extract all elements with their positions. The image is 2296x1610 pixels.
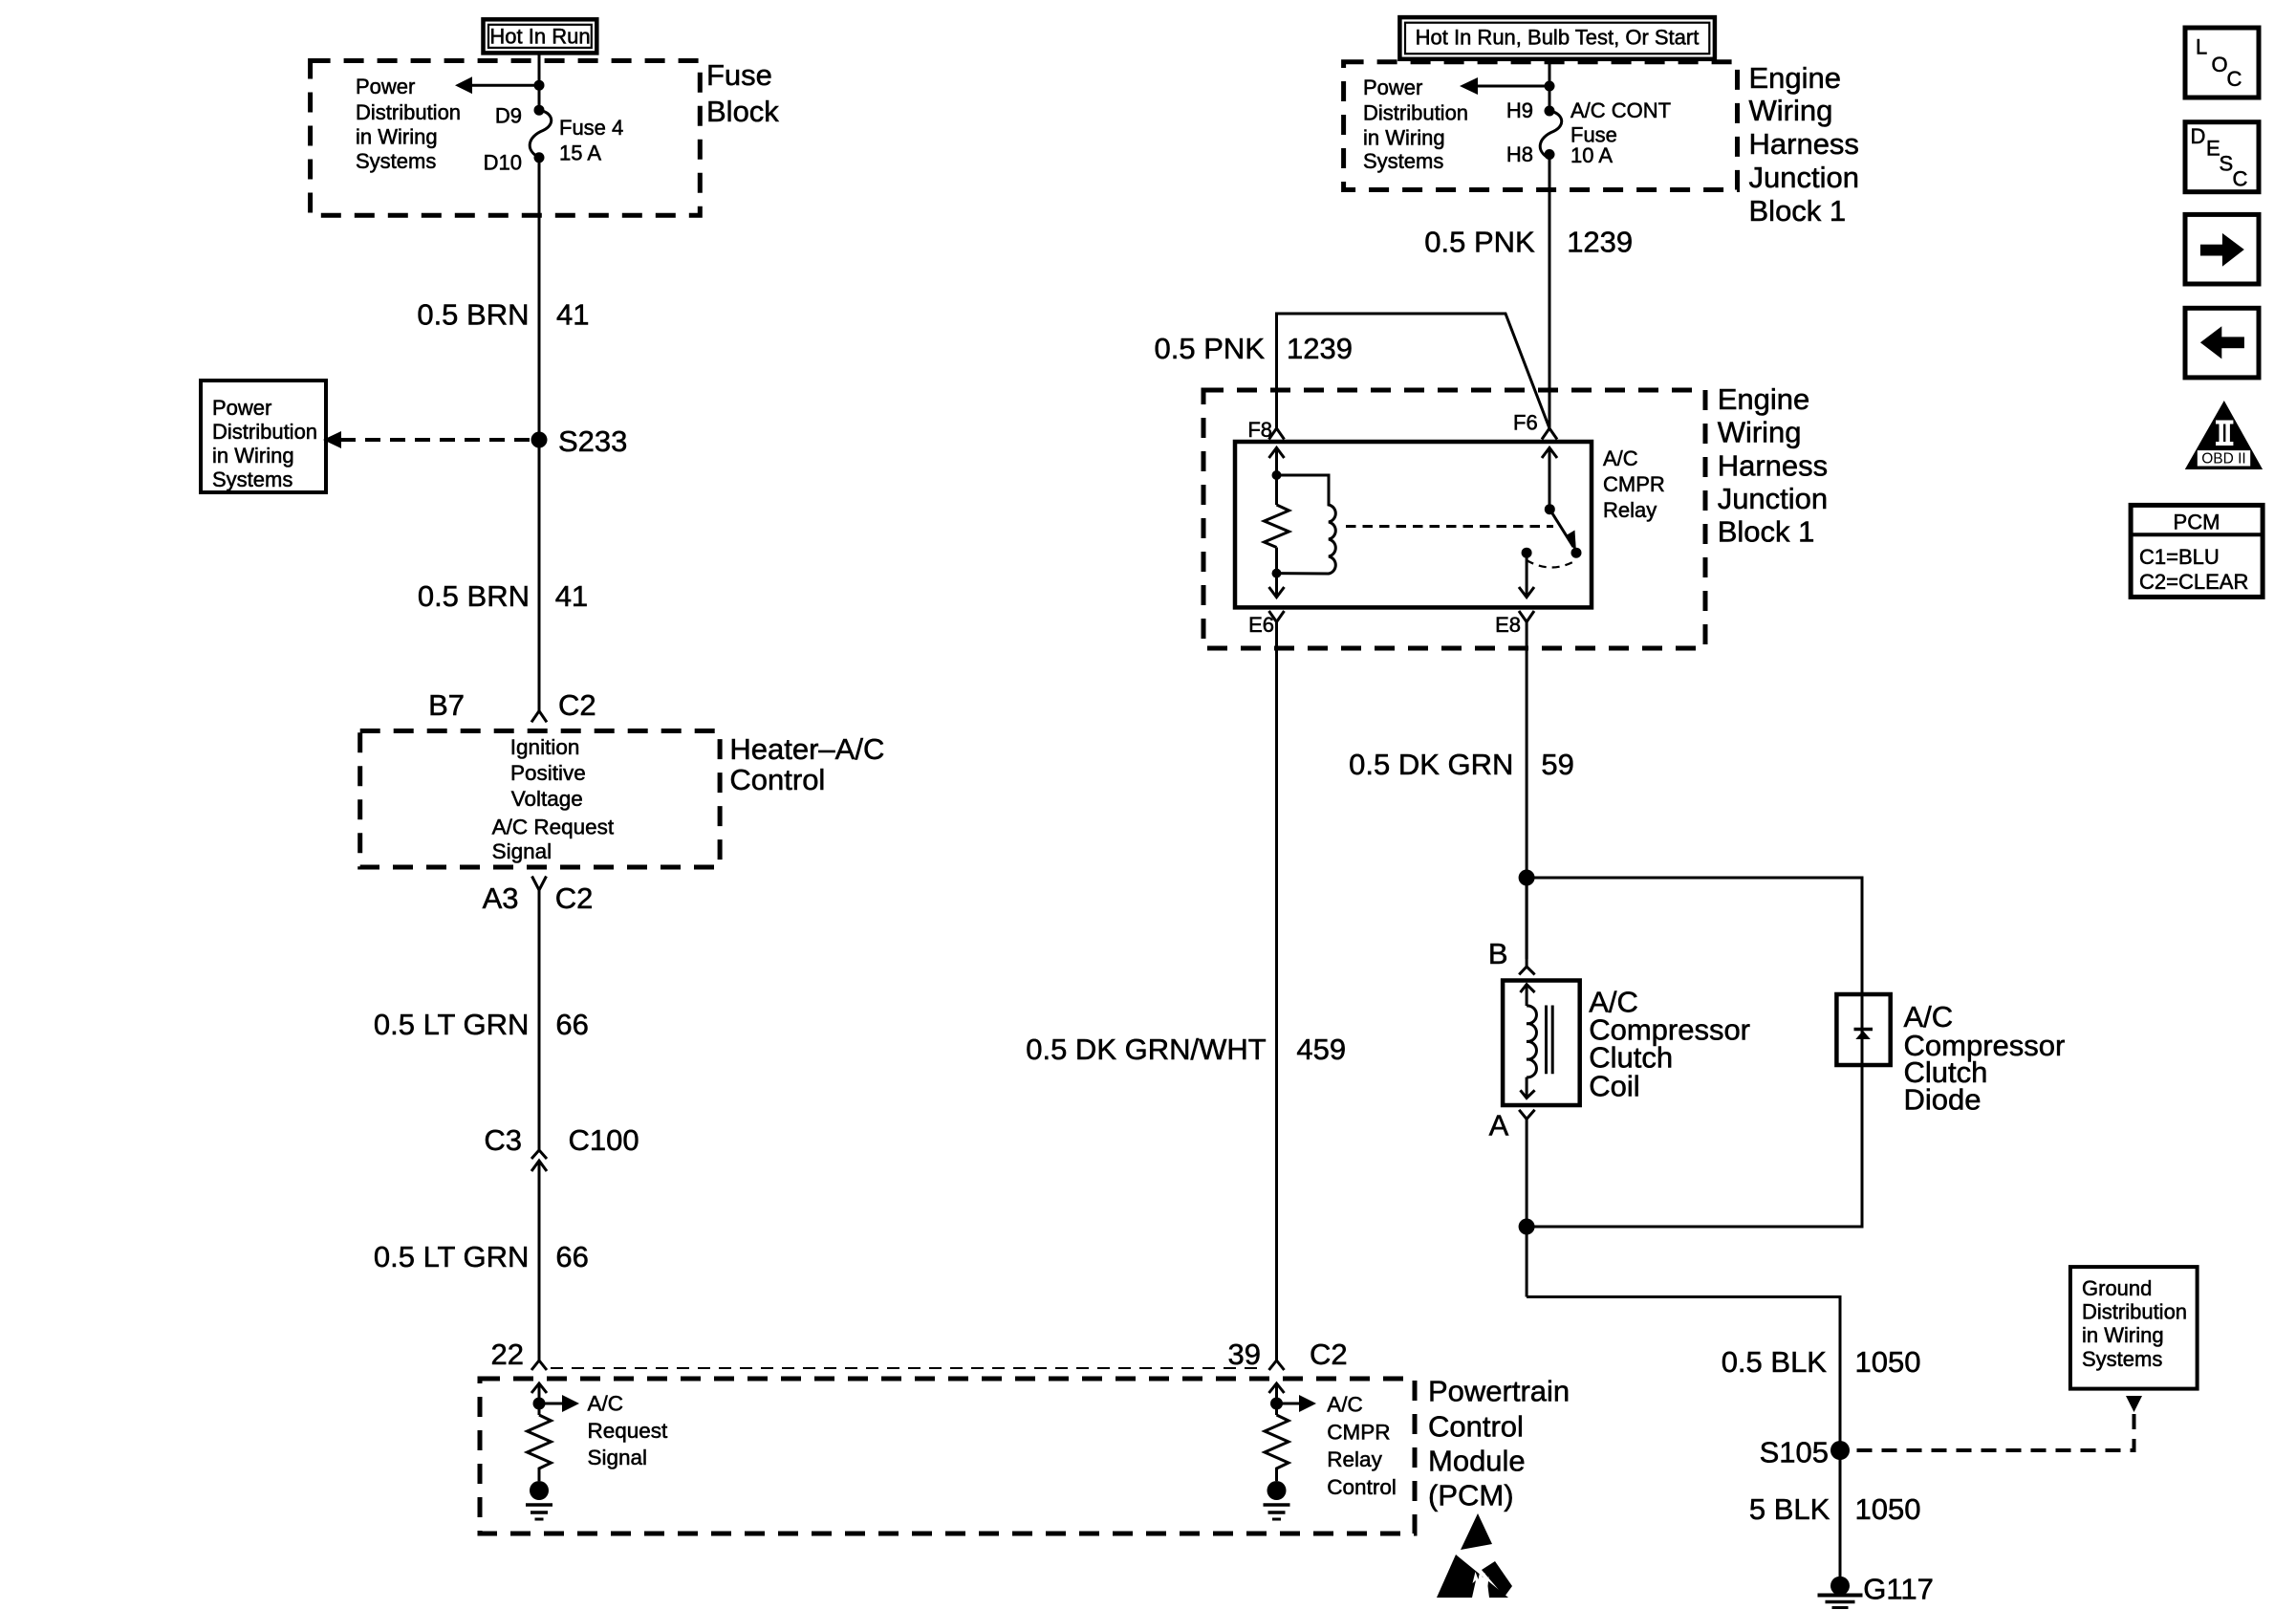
svg-text:Fuse 4: Fuse 4 [559, 116, 623, 140]
terminal H9 [1545, 106, 1555, 117]
svg-text:Distribution: Distribution [2082, 1300, 2187, 1324]
text "Power Distribution in Wiring Systems" (fuse block) [356, 75, 461, 173]
svg-text:1239: 1239 [1567, 225, 1633, 258]
svg-text:C2: C2 [1310, 1338, 1348, 1371]
svg-text:Block 1: Block 1 [1749, 194, 1847, 228]
svg-text:E8: E8 [1495, 613, 1521, 637]
svg-text:Diode: Diode [1904, 1082, 1982, 1116]
resistor (pin 39 driver) [1265, 1415, 1289, 1481]
svg-text:Block: Block [706, 95, 779, 128]
wire D10 to B7 connector (through S233) [538, 158, 541, 711]
text "A/C Request Signal" (heater box) [492, 816, 615, 863]
wire B to coil box [1526, 878, 1528, 967]
svg-text:0.5 DK GRN/WHT: 0.5 DK GRN/WHT [1026, 1033, 1267, 1066]
pin label 39 | C2 [1228, 1338, 1348, 1371]
ground symbol G117 [1818, 1596, 1863, 1608]
power label box "Hot In Run, Bulb Test, Or Start" [1399, 17, 1715, 59]
svg-text:A/C CONT: A/C CONT [1570, 98, 1671, 122]
svg-text:A: A [1489, 1108, 1509, 1142]
svg-text:A/C Request: A/C Request [492, 816, 615, 839]
wire branch to diode (top) [1527, 878, 1862, 994]
svg-text:H9: H9 [1506, 98, 1533, 122]
relay coil pin 86 arrow [1269, 447, 1285, 505]
wire A down to junction [1526, 1119, 1528, 1296]
svg-text:S105: S105 [1760, 1435, 1829, 1469]
svg-text:0.5 LT GRN: 0.5 LT GRN [374, 1240, 530, 1273]
svg-text:Systems: Systems [356, 149, 436, 173]
svg-text:E6: E6 [1248, 613, 1274, 637]
relay resistor [1265, 505, 1289, 548]
svg-text:Junction: Junction [1749, 161, 1859, 194]
relay switch blade [1549, 510, 1576, 553]
svg-text:459: 459 [1296, 1033, 1346, 1066]
in-line connector C100 (male half) [531, 1161, 547, 1171]
text "Ignition Positive Voltage" [510, 735, 586, 811]
svg-text:Request: Request [588, 1419, 669, 1443]
relay actuation dashed link [1346, 525, 1553, 528]
text "Power Distribution in Wiring Systems" (junction block) [1363, 76, 1468, 173]
svg-text:5 BLK: 5 BLK [1749, 1492, 1830, 1526]
svg-text:A/C: A/C [588, 1391, 624, 1415]
wire S105 to ground G117 [1839, 1450, 1842, 1579]
svg-text:C: C [2227, 67, 2242, 91]
svg-text:41: 41 [555, 579, 588, 613]
relay coil winding [1277, 475, 1336, 574]
svg-text:C100: C100 [569, 1123, 639, 1157]
engine wiring harness junction block 1 dashed box (relay) [1203, 390, 1705, 648]
reference box "Ground Distribution in Wiring Systems" [2070, 1267, 2198, 1389]
svg-text:Block 1: Block 1 [1718, 515, 1815, 549]
legend icon back arrow box [2185, 308, 2259, 378]
svg-text:C2: C2 [555, 881, 594, 915]
svg-text:Voltage: Voltage [511, 787, 583, 811]
wire from Hot In Run box to fuse D9 [538, 53, 541, 110]
ground dot pin 39 [1267, 1481, 1287, 1500]
svg-text:Harness: Harness [1718, 448, 1828, 482]
pin label A3 | C2 [483, 881, 594, 915]
svg-text:1050: 1050 [1855, 1345, 1921, 1379]
svg-text:in Wiring: in Wiring [212, 444, 294, 468]
PCM pin 22 input: male pin arrow [531, 1383, 547, 1415]
svg-text:Ignition: Ignition [510, 735, 580, 759]
signal arrow A/C CMPR Relay Control [1277, 1395, 1317, 1412]
svg-text:Power: Power [1363, 76, 1422, 99]
svg-text:Junction: Junction [1718, 482, 1828, 515]
svg-text:0.5 BRN: 0.5 BRN [417, 298, 529, 332]
A/C CMPR relay box [1235, 442, 1592, 607]
splice S105 [1830, 1441, 1850, 1460]
svg-text:Distribution: Distribution [1363, 101, 1468, 125]
label "Engine Wiring Harness Junction Block 1" (relay) [1718, 382, 1828, 549]
svg-text:Heater–A/C: Heater–A/C [729, 732, 884, 766]
svg-text:A3: A3 [483, 881, 519, 915]
svg-text:(PCM): (PCM) [1428, 1479, 1514, 1512]
dashed ground distribution reference arrow [1855, 1396, 2142, 1450]
connector symbol E8 [1519, 611, 1534, 622]
ESD sensitivity symbol [1437, 1513, 1512, 1598]
wire arrow tap to power distribution (junction block) [1460, 77, 1549, 95]
wire E6 down to PCM pin 39 [1275, 622, 1278, 1361]
A/C compressor clutch diode box [1836, 994, 1890, 1065]
svg-text:Power: Power [356, 75, 415, 98]
value label "Fuse 4 15 A" [559, 116, 623, 165]
relay coil top junction dot [1272, 470, 1282, 480]
svg-text:Control: Control [729, 763, 825, 796]
svg-text:Systems: Systems [212, 468, 292, 491]
label "A/C CMPR Relay" [1603, 446, 1665, 522]
svg-text:C: C [2233, 167, 2248, 191]
svg-text:41: 41 [556, 298, 589, 332]
svg-text:A/C: A/C [1327, 1393, 1363, 1417]
svg-text:S233: S233 [558, 424, 627, 458]
relay switch pin 30 arrow [1542, 447, 1557, 509]
svg-text:D10: D10 [484, 150, 522, 174]
svg-text:59: 59 [1541, 748, 1573, 781]
svg-text:O: O [2212, 53, 2228, 76]
svg-text:0.5 PNK: 0.5 PNK [1155, 332, 1266, 365]
svg-text:1239: 1239 [1287, 332, 1353, 365]
svg-text:Control: Control [1428, 1410, 1524, 1444]
svg-text:D: D [2191, 124, 2206, 148]
label "A/C Compressor Clutch Diode" [1904, 1000, 2066, 1116]
relay switch common contact dot [1522, 548, 1532, 558]
junction dot at arrow tap [1545, 81, 1555, 92]
svg-text:C2: C2 [558, 688, 596, 722]
powertrain control module dashed box [480, 1379, 1415, 1534]
legend PCM connector table [2131, 505, 2263, 597]
ground G117 dot [1830, 1577, 1850, 1596]
clutch coil winding [1527, 1006, 1536, 1077]
svg-text:Hot In Run: Hot In Run [489, 25, 590, 49]
pin label C3 | C100 [484, 1123, 639, 1157]
svg-text:C2=CLEAR: C2=CLEAR [2139, 570, 2248, 594]
label "A/C Compressor Clutch Coil" [1589, 986, 1750, 1103]
svg-text:B: B [1488, 937, 1508, 970]
resistor (pin 22 pull-down) [528, 1415, 552, 1481]
connector symbol F6 [1542, 428, 1557, 440]
wire H8 down to relay F6 [1549, 155, 1551, 429]
svg-text:S: S [2220, 152, 2234, 176]
connector symbol at heater-A/C control A3 [532, 877, 547, 891]
wire from Hot box to fuse H9 [1549, 59, 1551, 111]
ground symbol pin 39 [1264, 1505, 1290, 1519]
ground dot pin 22 [530, 1481, 549, 1500]
wire label "0.5 DK GRN/WHT 459" [1026, 1033, 1346, 1066]
branch wire 1239 from F6 to F8 [1277, 314, 1550, 428]
svg-text:39: 39 [1228, 1338, 1261, 1371]
label "Engine Wiring Harness Junction Block 1" (upper) [1749, 61, 1859, 228]
svg-text:CMPR: CMPR [1603, 472, 1665, 496]
clutch coil internal wire with pin arrows [1521, 985, 1535, 1099]
svg-text:0.5 BRN: 0.5 BRN [418, 579, 530, 613]
clutch coil core bars [1547, 1006, 1553, 1075]
svg-text:Fuse: Fuse [706, 58, 772, 92]
wire E8 down to junction B [1526, 622, 1528, 960]
junction dot below clutch coil [1519, 1219, 1535, 1235]
svg-text:Module: Module [1428, 1445, 1526, 1478]
relay switch pin 87 arrow [1519, 553, 1534, 597]
svg-text:Relay: Relay [1603, 498, 1657, 522]
power label box "Hot In Run" [484, 19, 597, 53]
svg-text:F6: F6 [1513, 411, 1538, 435]
text "A/C Request Signal" (PCM) [588, 1391, 669, 1469]
svg-text:22: 22 [491, 1338, 524, 1371]
wire to splice S105 [1527, 1297, 1840, 1451]
svg-text:in Wiring: in Wiring [2082, 1323, 2164, 1347]
fuse block dashed box [311, 61, 701, 216]
relay switch pivot dot [1545, 504, 1555, 514]
svg-text:0.5 BLK: 0.5 BLK [1722, 1345, 1828, 1379]
svg-text:Coil: Coil [1589, 1069, 1639, 1102]
diode element [1854, 994, 1874, 1065]
legend icon OBD II triangle [2185, 401, 2263, 469]
svg-text:L: L [2196, 34, 2207, 58]
svg-text:CMPR: CMPR [1327, 1420, 1390, 1444]
svg-text:in Wiring: in Wiring [356, 125, 438, 149]
relay switch travel dashed arc [1527, 560, 1576, 568]
svg-text:C3: C3 [484, 1123, 522, 1157]
wire label "0.5 LT GRN 66" (upper) [374, 1008, 589, 1041]
svg-text:PCM: PCM [2174, 511, 2220, 534]
junction dot above clutch coil [1519, 870, 1535, 886]
svg-text:B7: B7 [428, 688, 465, 722]
svg-text:Distribution: Distribution [212, 420, 317, 444]
svg-text:0.5 PNK: 0.5 PNK [1424, 225, 1535, 258]
wire label "0.5 DK GRN 59" [1349, 748, 1574, 781]
wire label "0.5 PNK 1239" (branch) [1155, 332, 1353, 365]
dashed arrow from S233 to power distribution box [323, 431, 531, 448]
junction dot at arrow tap [534, 80, 545, 91]
PCM pin 39 input: male pin arrow [1269, 1383, 1285, 1415]
svg-text:Systems: Systems [1363, 149, 1443, 173]
wire label "0.5 BRN 41" (lower) [418, 579, 588, 613]
svg-text:66: 66 [555, 1008, 588, 1041]
relay coil bottom junction dot [1272, 569, 1282, 578]
wire label "0.5 PNK 1239" (upper) [1424, 225, 1633, 258]
svg-text:in Wiring: in Wiring [1363, 126, 1445, 150]
svg-text:15 A: 15 A [559, 141, 601, 165]
connector C2 indicator dashed line [551, 1367, 1266, 1369]
svg-text:Power: Power [212, 396, 271, 420]
reference box "Power Distribution in Wiring Systems" [201, 381, 326, 492]
junction dot pin 39 [1270, 1398, 1283, 1410]
connector symbol at clutch coil A [1519, 1110, 1534, 1120]
connector symbol at heater-A/C control B7 [531, 711, 547, 723]
svg-text:Positive: Positive [510, 761, 586, 785]
svg-text:Wiring: Wiring [1749, 94, 1833, 127]
engine wiring harness junction block 1 dashed box (upper) [1344, 62, 1738, 190]
fuse F4 element (S-curve) [530, 110, 551, 158]
wire branch to diode (bottom) [1527, 1065, 1862, 1227]
label "Heater-A/C Control" [729, 732, 884, 796]
wire C100 to PCM pin 22 [538, 1162, 541, 1360]
connector symbol at PCM pin 39 [1269, 1360, 1285, 1370]
svg-text:Signal: Signal [588, 1446, 648, 1469]
legend icon forward arrow box [2185, 214, 2259, 284]
svg-text:Hot In Run, Bulb Test, Or Star: Hot In Run, Bulb Test, Or Start [1416, 25, 1700, 49]
svg-text:66: 66 [555, 1240, 588, 1273]
connector symbol at PCM pin 22 [531, 1360, 547, 1370]
wire label "0.5 LT GRN 66" (lower) [374, 1240, 589, 1273]
svg-text:Wiring: Wiring [1718, 416, 1802, 449]
svg-text:H8: H8 [1506, 142, 1533, 166]
svg-text:OBD II: OBD II [2201, 451, 2246, 468]
fuse A/C CONT element (S-curve) [1540, 111, 1561, 159]
ground symbol pin 22 [526, 1505, 552, 1519]
svg-text:Harness: Harness [1749, 127, 1859, 161]
wire A3 to C100 connector [538, 890, 541, 1150]
terminal D9 [534, 105, 545, 116]
relay switch blade end dot [1571, 548, 1582, 558]
svg-text:C1=BLU: C1=BLU [2139, 545, 2220, 569]
junction dot pin 22 [533, 1398, 546, 1410]
connector symbol at clutch coil B [1519, 967, 1534, 974]
svg-text:Ground: Ground [2082, 1276, 2152, 1300]
text "A/C CMPR Relay Control" (PCM) [1327, 1393, 1397, 1499]
svg-text:10 A: 10 A [1570, 143, 1613, 167]
svg-text:1050: 1050 [1855, 1492, 1921, 1526]
wire label "0.5 BLK 1050" [1722, 1345, 1921, 1379]
legend icon LOC box [2185, 28, 2259, 98]
terminal H8 [1545, 149, 1555, 160]
svg-text:A/C: A/C [1603, 446, 1638, 470]
svg-text:G117: G117 [1863, 1573, 1934, 1606]
in-line connector C100 (female half) [531, 1150, 547, 1159]
svg-text:Control: Control [1327, 1475, 1397, 1499]
svg-text:Relay: Relay [1327, 1447, 1382, 1471]
svg-text:Systems: Systems [2082, 1347, 2162, 1371]
connector symbol E6 [1269, 611, 1285, 622]
value label "A/C CONT Fuse 10 A" [1570, 98, 1671, 167]
legend icon DESC box [2185, 122, 2259, 192]
wire label "0.5 BRN 41" (upper) [417, 298, 589, 332]
svg-text:0.5 LT GRN: 0.5 LT GRN [374, 1008, 530, 1041]
svg-text:Distribution: Distribution [356, 100, 461, 124]
label "Powertrain Control Module (PCM)" [1428, 1374, 1570, 1512]
relay coil pin 85 arrow [1269, 548, 1285, 598]
signal arrow A/C Request [539, 1395, 579, 1412]
splice S233 [531, 432, 548, 448]
svg-text:0.5 DK GRN: 0.5 DK GRN [1349, 748, 1513, 781]
svg-text:D9: D9 [495, 104, 522, 128]
A/C compressor clutch coil box [1503, 981, 1580, 1106]
svg-text:Engine: Engine [1749, 61, 1842, 95]
pin label B7 | C2 [428, 688, 596, 722]
wire label "5 BLK 1050" [1749, 1492, 1921, 1526]
wire arrow tap to power distribution (inside fuse block) [455, 76, 539, 94]
svg-text:Signal: Signal [492, 839, 552, 863]
svg-text:E: E [2206, 137, 2220, 161]
connector symbol F8 [1269, 428, 1285, 440]
svg-text:Powertrain: Powertrain [1428, 1374, 1570, 1407]
terminal D10 [534, 152, 545, 163]
heater-A/C control dashed box [360, 731, 720, 868]
svg-text:Engine: Engine [1718, 382, 1810, 416]
